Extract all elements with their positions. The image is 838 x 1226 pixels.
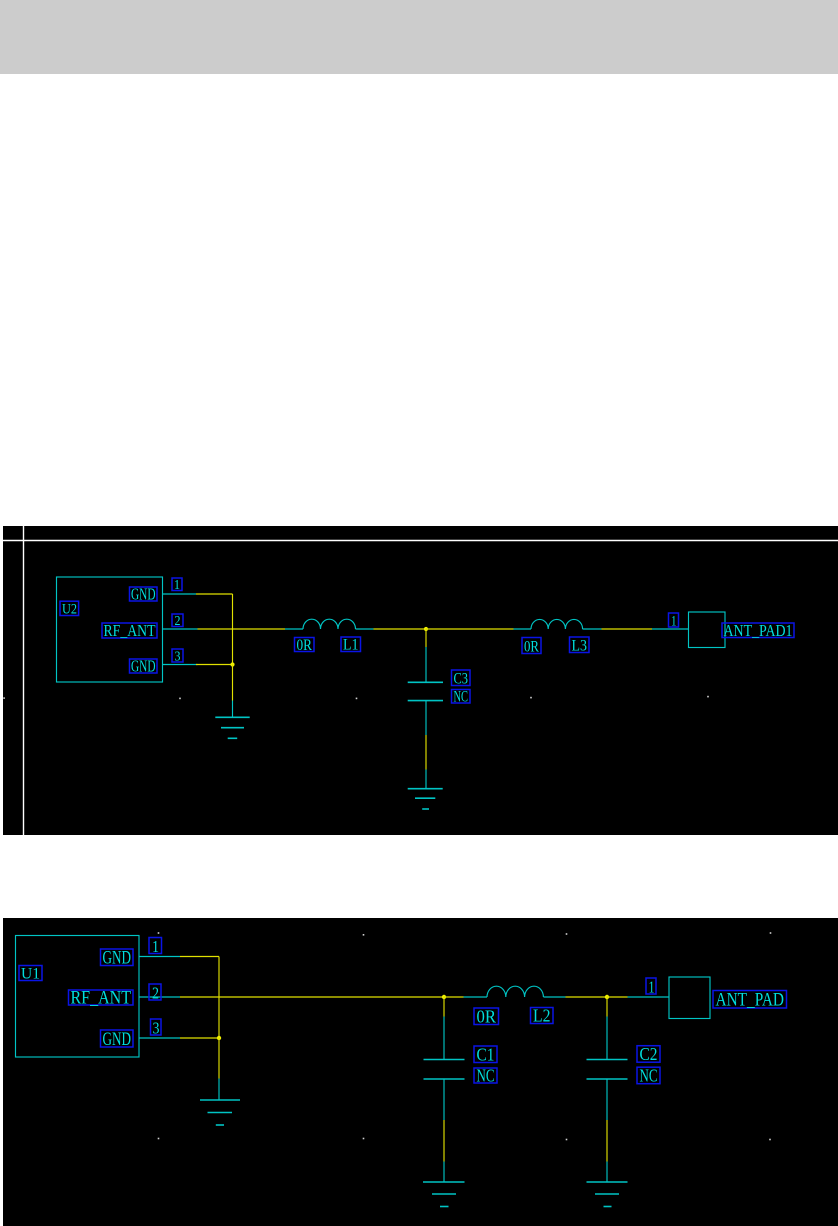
ground symbol at C1 — [423, 1162, 465, 1207]
wire U1 pin1 to vertical — [180, 956, 219, 958]
ground symbol at U2 — [215, 701, 249, 739]
L3 designator — [570, 637, 590, 655]
component U2 body — [57, 577, 163, 682]
C3 value NC — [452, 689, 471, 706]
inductor L2 — [464, 986, 566, 997]
L1 designator — [341, 637, 361, 654]
C2 designator — [637, 1044, 660, 1064]
L2 designator — [531, 1006, 554, 1026]
U1 pin 1 (GND) stub — [139, 956, 180, 958]
inductor L3 — [514, 619, 602, 629]
svg-text:0R: 0R — [524, 638, 540, 655]
ANT_PAD pin 1 number — [646, 977, 656, 996]
C1 value NC — [474, 1065, 497, 1085]
U2 pin 3 name GND — [130, 657, 158, 676]
wire L3 to ANT_PAD1 — [602, 628, 653, 630]
ANT_PAD1 pin 1 number — [669, 613, 679, 630]
capacitor C3 — [408, 647, 443, 735]
toolbar gray header — [0, 0, 838, 74]
svg-text:1: 1 — [152, 937, 159, 956]
wire junction down to ground — [218, 1038, 220, 1079]
grid dot panel2 g — [566, 1139, 568, 1141]
component U1 body — [16, 936, 140, 1058]
svg-text:L2: L2 — [533, 1006, 551, 1026]
U1 pin 2 (RF_ANT) stub — [139, 996, 180, 998]
U1 pin 1 name GND — [101, 948, 134, 969]
svg-text:ANT_PAD1: ANT_PAD1 — [724, 621, 793, 640]
grid dot panel2 c — [566, 933, 568, 935]
wire vertical pin1-pin3 — [232, 594, 234, 665]
U2 pin 3 number — [172, 649, 183, 665]
C1 designator — [474, 1045, 497, 1065]
schematic panel 1 background — [3, 526, 838, 835]
grid dot panel2 e — [158, 1138, 160, 1140]
U2 pin 1 (GND) stub — [163, 593, 197, 595]
grid dot panel1 e — [707, 696, 709, 698]
C2 value NC — [637, 1066, 660, 1086]
U1 pin 3 name GND — [101, 1029, 134, 1050]
svg-text:3: 3 — [153, 1018, 160, 1037]
L1 value 0R — [295, 637, 315, 654]
panel 1 ruler horizontal white line — [3, 540, 838, 542]
ground symbol at C2 — [587, 1162, 628, 1207]
svg-text:L3: L3 — [572, 638, 588, 655]
U2 pin 2 (RF_ANT) stub — [163, 628, 198, 630]
component ANT_PAD1 pin stub — [652, 628, 689, 630]
wire C3 to ground — [425, 735, 427, 770]
ground symbol at C3 — [408, 770, 443, 810]
wire U1 pin3 to junction — [180, 1037, 219, 1039]
svg-text:NC: NC — [640, 1066, 658, 1086]
grid dot panel1 a — [3, 697, 5, 699]
svg-text:0R: 0R — [477, 1007, 497, 1027]
wire vertical U1 pin1-pin3 — [218, 957, 220, 1039]
wire pin3 to junction — [196, 664, 233, 666]
wire junction down to ground — [232, 665, 234, 701]
wire C1 to ground — [443, 1120, 445, 1162]
svg-text:RF_ANT: RF_ANT — [104, 621, 156, 640]
wire C2 to ground — [606, 1120, 608, 1162]
wire junction to L3 — [426, 628, 514, 630]
junction at U1 pin3 — [217, 1036, 221, 1040]
svg-text:C1: C1 — [477, 1045, 495, 1065]
wire pin1 to vertical — [196, 593, 233, 595]
capacitor C1 — [424, 997, 465, 1120]
svg-text:GND: GND — [131, 657, 156, 676]
wire L2 to junction C2 — [566, 996, 608, 998]
junction at U2 pin3 — [230, 662, 234, 666]
svg-text:2: 2 — [175, 614, 181, 629]
wire junction C1 to L2 — [444, 996, 464, 998]
U1 pin 3 (GND) stub — [139, 1037, 180, 1039]
component ANT_PAD pin stub — [628, 996, 670, 998]
wire U2 pin2 to L1 — [198, 628, 286, 630]
wire junction C2 to ANT_PAD — [607, 996, 628, 998]
U2 pin 2 number — [172, 614, 183, 629]
grid dot panel1 b — [179, 698, 181, 700]
inductor L1 — [285, 619, 374, 629]
svg-text:3: 3 — [175, 650, 181, 665]
junction node C2 — [605, 995, 609, 999]
grid dot panel2 a — [158, 932, 160, 934]
junction node RF line / C3 — [424, 627, 428, 631]
svg-text:L1: L1 — [343, 637, 359, 654]
U1 pin 2 number — [149, 983, 161, 1002]
svg-text:1: 1 — [671, 614, 677, 630]
L3 value 0R — [522, 638, 541, 656]
grid dot panel1 d — [530, 697, 532, 699]
component ANT_PAD body — [669, 977, 710, 1019]
designator U1 — [19, 966, 42, 983]
svg-text:U1: U1 — [21, 966, 40, 983]
C3 designator — [452, 670, 471, 687]
svg-text:1: 1 — [174, 578, 180, 593]
U1 pin 3 number — [151, 1018, 162, 1037]
U1 pin 1 number — [149, 937, 162, 956]
designator U2 — [60, 601, 79, 617]
U2 pin 1 name GND — [130, 585, 158, 604]
svg-text:U2: U2 — [62, 602, 77, 618]
grid dot panel2 d — [770, 932, 772, 934]
svg-text:C3: C3 — [454, 670, 469, 687]
grid dot panel2 b — [363, 934, 365, 936]
ANT_PAD name label — [713, 990, 787, 1011]
U2 pin 2 name RF_ANT — [102, 621, 157, 640]
junction node C1 — [442, 995, 446, 999]
svg-text:GND: GND — [103, 948, 132, 969]
L2 value 0R — [474, 1007, 499, 1027]
wire U1 pin2 to junction C1 — [180, 996, 444, 998]
panel 1 ruler vertical white line — [23, 526, 25, 835]
svg-text:NC: NC — [454, 689, 469, 706]
svg-text:GND: GND — [131, 585, 156, 604]
grid dot panel2 f — [363, 1138, 365, 1140]
U2 pin 3 (GND) stub — [163, 664, 198, 666]
component ANT_PAD1 body — [689, 612, 726, 648]
svg-text:ANT_PAD: ANT_PAD — [716, 990, 785, 1011]
grid dot panel2 h — [769, 1139, 771, 1141]
capacitor C2 — [587, 997, 628, 1120]
grid dot panel1 c — [356, 698, 358, 700]
ANT_PAD1 name label — [722, 621, 794, 640]
svg-text:0R: 0R — [297, 637, 313, 654]
svg-text:RF_ANT: RF_ANT — [71, 987, 132, 1008]
U2 pin 1 number — [172, 578, 182, 593]
svg-text:NC: NC — [477, 1065, 495, 1085]
svg-text:1: 1 — [649, 977, 655, 996]
svg-text:GND: GND — [103, 1029, 132, 1050]
wire L1 to junction — [374, 628, 427, 630]
wire junction down to C3 — [425, 629, 427, 647]
U1 pin 2 name RF_ANT — [69, 987, 134, 1008]
ground symbol at U1 — [200, 1079, 240, 1126]
svg-text:2: 2 — [152, 983, 159, 1002]
schematic panel 2 background — [3, 918, 838, 1226]
svg-text:C2: C2 — [640, 1044, 658, 1064]
